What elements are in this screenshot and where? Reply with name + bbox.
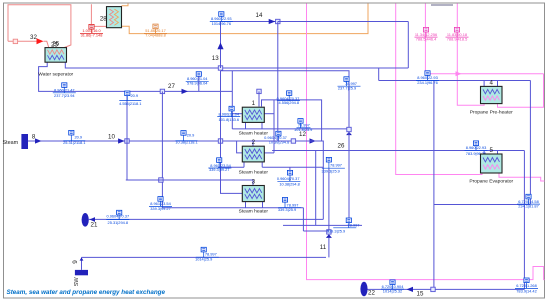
svg-text:Propane Evaporator: Propane Evaporator [469,178,513,184]
svg-text:11: 11 [320,244,327,251]
svg-text:32: 32 [30,34,37,41]
svg-text:1: 1 [252,100,256,107]
svg-text:Steam, sea water and propane e: Steam, sea water and propane energy heat… [7,289,166,296]
svg-text:SW: SW [74,277,80,287]
svg-text:783.9|14.42: 783.9|14.42 [516,289,536,294]
svg-text:339.3|99.27: 339.3|99.27 [150,206,170,211]
svg-text:10: 10 [108,134,115,141]
svg-text:4: 4 [490,79,494,86]
svg-text:10.38|2118.1: 10.38|2118.1 [175,139,197,144]
svg-text:788.5|446.4: 788.5|446.4 [416,37,437,42]
svg-text:26: 26 [338,143,345,150]
svg-text:78.997: 78.997 [348,223,360,228]
svg-text:234.1|81.87: 234.1|81.87 [518,204,538,209]
svg-text:8.960|21.04: 8.960|21.04 [219,111,240,116]
svg-text:1014|25.32: 1014|25.32 [383,289,402,294]
svg-text:31.86|-7.148: 31.86|-7.148 [81,32,103,37]
svg-text:Water seperator: Water seperator [38,72,73,78]
svg-text:339.3|25.9: 339.3|25.9 [278,207,296,212]
svg-text:78.997: 78.997 [330,163,342,168]
svg-text:101.8|133.6: 101.8|133.6 [219,117,239,122]
svg-text:237.7|25.9: 237.7|25.9 [338,86,356,91]
svg-text:14: 14 [256,12,263,19]
svg-text:13: 13 [212,55,219,62]
svg-text:339.3|25.9: 339.3|25.9 [327,228,345,233]
svg-text:27: 27 [168,83,175,90]
svg-text:25: 25 [52,41,59,48]
svg-text:1014|25.9: 1014|25.9 [195,257,212,262]
svg-text:Steam heater: Steam heater [239,131,269,137]
svg-text:25.31|294.8: 25.31|294.8 [108,220,128,225]
svg-text:0.9604|70.37: 0.9604|70.37 [106,214,129,219]
svg-text:8.960|22.93: 8.960|22.93 [466,145,486,150]
svg-text:21: 21 [91,222,98,229]
svg-text:2: 2 [252,139,256,146]
svg-text:20.9: 20.9 [187,133,195,138]
svg-text:788.9|418.5: 788.9|418.5 [447,37,467,42]
svg-text:3: 3 [252,179,256,186]
svg-text:9: 9 [72,260,79,264]
svg-text:237.7|23.94: 237.7|23.94 [54,93,75,98]
svg-text:Steam: Steam [3,140,19,146]
svg-text:5: 5 [490,147,494,154]
svg-text:25.31|2118.1: 25.31|2118.1 [63,140,85,145]
svg-text:12: 12 [299,131,306,138]
svg-text:Propane Pre-heater: Propane Pre-heater [470,110,513,116]
svg-text:6.720|1.268: 6.720|1.268 [516,283,536,288]
svg-text:10.38|294.8: 10.38|294.8 [279,181,299,186]
svg-text:4.556|294.8: 4.556|294.8 [279,100,299,105]
svg-text:339.3|99.27: 339.3|99.27 [209,167,229,172]
svg-text:22: 22 [368,290,375,297]
svg-text:4.556|2118.1: 4.556|2118.1 [119,101,141,106]
svg-text:Steam heater: Steam heater [239,170,269,176]
svg-text:1014|96.76: 1014|96.76 [212,21,231,26]
svg-text:15: 15 [417,291,424,298]
svg-text:578.9|96.04: 578.9|96.04 [187,81,208,86]
svg-text:20.9: 20.9 [131,93,139,98]
svg-text:20.9: 20.9 [75,135,83,140]
svg-text:10.38|294.8: 10.38|294.8 [269,139,289,144]
svg-text:0.9604|70.37: 0.9604|70.37 [277,176,300,181]
svg-text:Steam heater: Steam heater [239,208,269,214]
svg-text:339.3|25.9: 339.3|25.9 [322,169,340,174]
svg-text:7.04|4888.8: 7.04|4888.8 [145,33,165,38]
svg-text:234.1|96.76: 234.1|96.76 [417,80,437,85]
svg-text:8: 8 [32,134,36,141]
